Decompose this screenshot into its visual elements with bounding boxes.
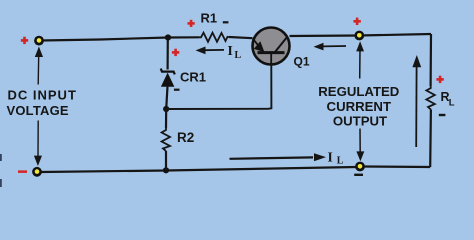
red minus left of bottom-left node (18, 170, 27, 173)
annotation arrow up (load current) (412, 55, 421, 147)
red plus above R1 (188, 20, 195, 27)
junction dot R2 bottom (163, 167, 169, 173)
svg-text:Q1: Q1 (294, 55, 310, 69)
annotation arrow down to bottom-right node (356, 129, 364, 162)
svg-text:L: L (235, 50, 242, 61)
wire: RL to bottom-right corner (429, 110, 432, 168)
node bottom-left (input -) (32, 167, 42, 177)
annotation arrow down to bottom-left node (34, 121, 42, 167)
svg-text:CR1: CR1 (180, 69, 206, 84)
svg-text:L: L (337, 156, 344, 167)
red plus above CR1 (172, 49, 179, 56)
resistor R2 (162, 128, 170, 151)
resistor RL (426, 86, 434, 110)
bottom wire: corner to output node (364, 165, 430, 168)
wire: output node to top-right corner (359, 34, 431, 36)
zener diode CR1 (161, 69, 175, 87)
wire: base horizontal run (166, 65, 271, 110)
svg-text:I: I (328, 149, 333, 164)
minus below CR1 (174, 89, 180, 91)
node junction at CR1 branch (165, 34, 171, 40)
minus below bottom-right node (354, 174, 363, 176)
svg-text:OUTPUT: OUTPUT (333, 113, 387, 128)
transistor Q1 (253, 28, 290, 65)
node top-right (output +) (354, 31, 364, 41)
junction dot above R2 (163, 106, 169, 112)
wire: R1 to transistor emitter (229, 37, 253, 38)
wire top-left: node to CR1 junction (41, 38, 168, 41)
svg-text:R1: R1 (201, 11, 218, 26)
svg-text:REGULATED: REGULATED (318, 84, 399, 99)
red plus left of top-left node (21, 37, 28, 44)
wire: junction to R2 (165, 109, 167, 128)
svg-text:CURRENT: CURRENT (327, 99, 391, 114)
annotation arrow under collector wire (pointing left) (314, 43, 347, 51)
wire: junction to R1 (168, 36, 199, 38)
red plus above top-right node (353, 18, 360, 25)
scan smudge bottom-left corner (0, 179, 2, 187)
svg-text:DC INPUT: DC INPUT (8, 87, 77, 102)
annotation arrow up to top-left node (35, 47, 43, 85)
minus after R1 (223, 21, 229, 23)
scan smudge left edge (0, 154, 2, 161)
red plus at RL (436, 76, 443, 83)
wire: R2 to bottom junction (165, 151, 167, 170)
annotation arrow IL top (pointing left) (196, 47, 225, 55)
wire: right side down to RL (430, 34, 433, 86)
wire: zener to base junction (166, 87, 167, 110)
svg-text:I: I (228, 43, 233, 58)
svg-text:L: L (449, 98, 455, 109)
wire: collector to output node (290, 34, 360, 37)
node bottom-right (output -) (355, 162, 365, 172)
wire: CR1 branch vertical (junction to zener) (167, 38, 169, 70)
resistor R1 (199, 33, 229, 42)
bottom wire: output node to R2 junction to left node (41, 167, 356, 172)
svg-text:R2: R2 (177, 130, 194, 145)
annotation arrow IL bottom (pointing right) (230, 153, 327, 161)
node top-left (input +) (34, 36, 44, 46)
annotation arrow up to top-right node (356, 41, 364, 78)
minus below RL (439, 114, 446, 116)
svg-text:VOLTAGE: VOLTAGE (7, 103, 69, 118)
